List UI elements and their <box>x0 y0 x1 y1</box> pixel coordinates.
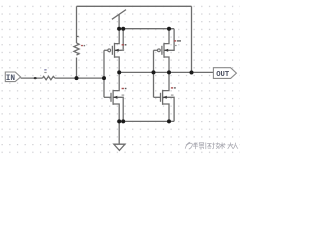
svg-text:IN: IN <box>6 75 16 83</box>
svg-text:OUT: OUT <box>216 71 230 79</box>
